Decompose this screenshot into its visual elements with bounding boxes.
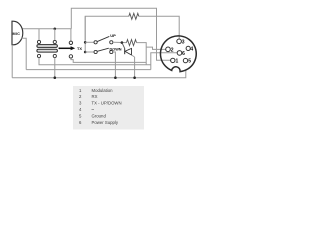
wire: UP contact to junction [113, 41, 127, 43]
wire: diode anode down to ground [134, 57, 136, 78]
wire: riser to pin 6 [151, 53, 177, 70]
wire: tee to pin 2 [146, 47, 165, 49]
wire: ground bus [12, 70, 186, 78]
svg-text:1: 1 [176, 58, 179, 64]
wire: transformer top-right stub [54, 29, 56, 41]
connector J1 DIN shell [160, 36, 196, 72]
node junction dot UP feed [84, 41, 87, 44]
legend text [79, 88, 122, 112]
svg-text:6: 6 [182, 51, 185, 57]
svg-text:UP: UP [110, 33, 116, 38]
node ground dot transformer [54, 76, 57, 79]
wire: transformer bottom-right to ground [54, 58, 56, 78]
switch S2 UP [94, 33, 116, 44]
wire: stub to UP left contact [85, 41, 94, 43]
wire: DOWN contact down to ground [113, 52, 116, 78]
pin 4 [186, 46, 190, 50]
svg-text:4: 4 [190, 46, 193, 52]
switch S1 PTT top contact [69, 41, 72, 44]
wire: MIC lower terminal to L2 [22, 38, 27, 69]
microphone MIC [12, 21, 23, 45]
switch S1 PTT bottom contact [69, 55, 72, 58]
resistor R1 (top) [129, 13, 139, 19]
TX arrow [58, 46, 82, 51]
wire: L2 bus mic lower terminal to riser [26, 69, 151, 71]
svg-text:RX: RX [92, 94, 98, 99]
wire: second top rail to pin 3 [85, 16, 129, 40]
node ground dot diode [133, 76, 136, 79]
resistor R2 [127, 40, 137, 46]
legend row 4 dash [92, 108, 95, 110]
svg-text:2: 2 [171, 47, 174, 53]
wire: MIC top terminal to top rail [23, 28, 72, 30]
svg-text:DOWN: DOWN [110, 48, 122, 52]
wire: resistor out, down to L1 [137, 43, 147, 65]
wire: transformer top-left stub [38, 29, 40, 41]
wire: transformer bottom-left to L1 [39, 58, 151, 65]
svg-text:Ground: Ground [92, 113, 107, 118]
wire: stub to DOWN left contact [85, 51, 94, 53]
wire: MIC tail to ground line [11, 45, 13, 78]
node junction dot DOWN feed [84, 51, 87, 54]
svg-text:3: 3 [182, 39, 185, 45]
node junction dot resistor/diode [121, 41, 124, 44]
pin 3 [177, 39, 182, 44]
transformer T1 [37, 40, 58, 57]
svg-text:TX - UP/DOWN: TX - UP/DOWN [92, 101, 122, 106]
legend panel background [73, 86, 144, 130]
wire: PTT top contact feed [70, 29, 72, 41]
pin 6 [177, 51, 182, 56]
svg-text:Power Supply: Power Supply [92, 120, 119, 125]
diode D1 [122, 43, 135, 57]
wire: PTT bottom contact to L0 [71, 58, 146, 62]
wire: up/down feed vertical [84, 16, 86, 52]
wire: top rail outer (shield) [71, 8, 170, 60]
svg-text:MIC: MIC [13, 32, 21, 36]
svg-text:5: 5 [188, 59, 191, 65]
pin 1 [171, 58, 175, 62]
node A junction dot mic line / transformer [54, 28, 57, 31]
pin 2 [166, 47, 171, 52]
node ground dot down-switch [114, 76, 117, 79]
svg-text:Modulation: Modulation [92, 88, 114, 93]
pin 5 [183, 58, 187, 62]
svg-text:TX: TX [77, 46, 82, 51]
switch S3 DOWN [94, 48, 122, 54]
